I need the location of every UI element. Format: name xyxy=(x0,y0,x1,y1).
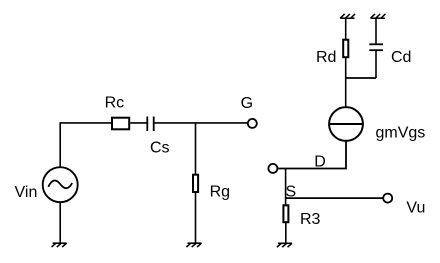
wire node S vertical xyxy=(285,169,287,205)
resistor Rc xyxy=(112,118,129,130)
svg-text:S: S xyxy=(286,184,297,201)
svg-text:Cs: Cs xyxy=(150,139,170,156)
source Vin xyxy=(43,167,78,202)
ground (below Rg) xyxy=(186,243,201,247)
terminal G xyxy=(248,119,257,128)
wire Vin to ground xyxy=(59,202,61,243)
wire Rd down to gmVgs xyxy=(345,58,347,107)
wire junction Rd/Cd xyxy=(346,77,376,79)
svg-text:Rd: Rd xyxy=(316,49,336,66)
svg-text:Vu: Vu xyxy=(406,200,425,217)
ground (below Vin) xyxy=(52,243,67,247)
ground (top, above Rd) xyxy=(340,14,355,18)
svg-text:Cd: Cd xyxy=(391,49,411,66)
wire R3 to ground xyxy=(285,223,287,244)
wire ground to Cd xyxy=(375,18,377,44)
wire from Vin top corner to Rc xyxy=(60,123,111,167)
capacitor Cs xyxy=(147,117,153,132)
terminal Vu xyxy=(383,194,392,203)
wire Cd down to junction xyxy=(375,50,377,78)
resistor Rg xyxy=(193,175,198,192)
resistor R3 xyxy=(283,205,288,222)
capacitor Cd xyxy=(369,44,383,50)
wire Rc to Cs xyxy=(130,122,146,124)
ground (top, above Cd) xyxy=(371,14,386,18)
wire junction down to Rg xyxy=(195,123,197,174)
wire Rg to ground xyxy=(195,193,197,243)
controlled source gmVgs xyxy=(329,107,363,141)
svg-text:Vin: Vin xyxy=(15,184,38,201)
resistor Rd xyxy=(343,40,348,58)
wire Cs to node G xyxy=(155,122,248,124)
wire ground to Rd xyxy=(345,18,347,39)
svg-text:gmVgs: gmVgs xyxy=(376,124,426,141)
svg-text:G: G xyxy=(241,95,253,112)
ground (below R3) xyxy=(277,243,292,247)
terminal D (open circle) xyxy=(268,164,277,173)
svg-text:R3: R3 xyxy=(300,211,321,228)
wire gmVgs to node D xyxy=(278,141,346,169)
svg-text:Rc: Rc xyxy=(105,95,125,112)
svg-text:D: D xyxy=(314,153,326,170)
wire S to Vu xyxy=(286,197,383,199)
svg-text:Rg: Rg xyxy=(210,184,230,201)
